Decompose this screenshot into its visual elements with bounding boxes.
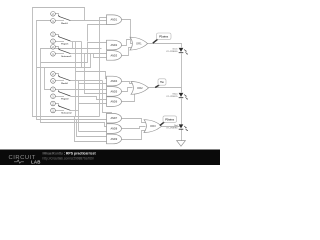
wire OR1 out to LED1 [148,44,182,48]
wire AND6 out to OR2 bottom input [122,93,135,102]
wire loop2 (x36, to C1 lower input) [37,21,107,120]
wire y67.5 line up to A3 upper input [37,54,107,68]
wire x81.5 drop to y67.5 line [81,42,83,68]
AND gate AND4 [107,76,122,86]
svg-text:AND7: AND7 [111,116,118,120]
wire AND4 out to OR2 top input [122,82,133,84]
switch SW6 (Scissors2) [51,101,73,114]
wire rail LED3 to ground [181,130,183,141]
svg-text:http://circuitlab.com/c/299887: http://circuitlab.com/c/2998876a769/ [43,156,94,160]
AND gate AND9 [107,134,122,144]
svg-text:AND5: AND5 [111,89,118,93]
wire Scissors2 output [71,110,79,112]
switch SW5 (Paper2) [51,87,71,100]
svg-text:AND4: AND4 [111,79,118,83]
wire y71.5 line to B1 upper input (Z-bend) [76,72,107,79]
svg-text:P1wins: P1wins [159,34,168,38]
AND gate AND1 [107,15,122,25]
LED LED1 (Green) [166,47,188,54]
AND gate AND3 [107,51,122,61]
OR gate OR2 [131,82,149,95]
svg-text:LTL-2R3KRD: LTL-2R3KRD [166,128,178,130]
LED LED3 (Red) [166,124,187,131]
AND gate AND5 [107,87,122,97]
wire jog to A3 lower input [85,54,107,58]
wire OR2 out to LED2 [149,88,182,93]
wire AND9 out to OR3 bottom input [122,131,146,140]
wire rail LED2 to LED3 [181,99,183,125]
svg-text:Yellow: Yellow [172,93,178,95]
wire to B3 lower input [79,103,107,105]
wire Rock2 output [71,80,103,82]
svg-text:Green: Green [172,47,177,50]
svg-text:Paper1: Paper1 [61,43,69,45]
footer watermark bar [0,150,220,166]
wire Paper1 output [71,41,82,43]
ground [177,141,186,147]
switch SW4 (Rock2) [51,72,71,85]
AND gate AND6 [107,97,122,107]
switch SW3 (Scissors1) [51,45,73,58]
svg-text:Rock1: Rock1 [61,23,68,25]
svg-text:LTL-2R3KYD: LTL-2R3KYD [166,96,178,98]
wire long vertical x99.5 to AND1 upper input [100,18,107,117]
switch SW2 (Paper1) [51,32,71,45]
wire Paper1 tap to y48.4 bus [72,42,74,49]
wire loop3 (y48.4 bus / x40 / C2 upper input) [41,49,107,127]
svg-text:LAB: LAB [31,160,41,165]
wire x102.5 drop to C1 upper input (Z-bend) [103,81,112,116]
OR gate OR1 [130,37,148,50]
wire to C3 upper input [77,120,107,137]
wire rail LED1 to LED2 [181,54,183,93]
wire AND8 out to OR3 mid input [122,127,146,129]
wire Paper2 output to B3 upper input [71,97,107,100]
wire to B1 lower input [79,83,107,85]
OR gate OR3 [144,120,162,133]
wire x44.5 drop to B2 upper input [45,68,107,90]
svg-text:Rock2: Rock2 [61,83,68,85]
svg-text:AND6: AND6 [111,100,118,104]
svg-text:MikaelKonttu : RPS practical t: MikaelKonttu : RPS practical test [43,152,97,156]
wire OR3 out to LED3 [162,126,182,128]
wire AND3 out to OR1 bottom input [122,48,132,56]
svg-text:OR3: OR3 [150,124,156,128]
wire loop1 (top y7.5 / left x32 / bottom y116.5) [33,8,100,117]
svg-text:AND1: AND1 [111,18,118,22]
wire to C3 lower input [75,117,107,142]
svg-text:AND9: AND9 [111,137,118,141]
svg-text:OR2: OR2 [137,86,143,90]
wire AND5 out to OR2 mid input [122,88,133,92]
svg-text:LTL-2R3KGD: LTL-2R3KGD [166,51,178,53]
svg-text:OR1: OR1 [136,42,142,46]
wire to C2 lower input [79,131,107,133]
svg-text:Paper2: Paper2 [61,98,69,100]
wire AND1 out to OR1 mid input [122,20,133,44]
svg-text:P2wins: P2wins [165,117,174,121]
AND gate AND8 [107,124,122,134]
svg-text:Scissors1: Scissors1 [61,56,72,58]
wire riser x87.5 to AND1 lower edge [88,25,107,42]
AND gate AND7 [107,113,122,123]
wire x75.5 long vertical [75,42,77,117]
wire y62 line up to A2 upper input [41,43,107,63]
switch SW1 (Rock1) [51,12,71,25]
wire AND7 out to OR3 top input [122,119,146,123]
svg-text:Tie: Tie [160,80,164,84]
svg-text:AND3: AND3 [111,53,118,57]
AND gate AND2 [107,40,122,50]
flag label F2 (Tie) [155,79,166,88]
svg-text:Red: Red [174,125,177,127]
wire Scissors1 output [71,53,85,55]
wire x84.5 drop to B2 lower input [85,54,107,94]
flag label F3 (P2wins) [160,116,177,126]
LED LED2 (Yellow) [166,93,187,100]
flag label F1 (P1wins) [153,33,171,43]
footer title text [43,152,97,161]
svg-text:AND2: AND2 [111,43,118,47]
svg-text:Scissors2: Scissors2 [61,113,72,115]
wire AND2 out to OR1 top input [122,40,132,46]
svg-text:AND8: AND8 [111,127,118,131]
wire Rock1 output to AND1 lower input [71,20,107,22]
CircuitLab logo [9,155,41,164]
wire x78.5 long vertical [78,81,80,132]
